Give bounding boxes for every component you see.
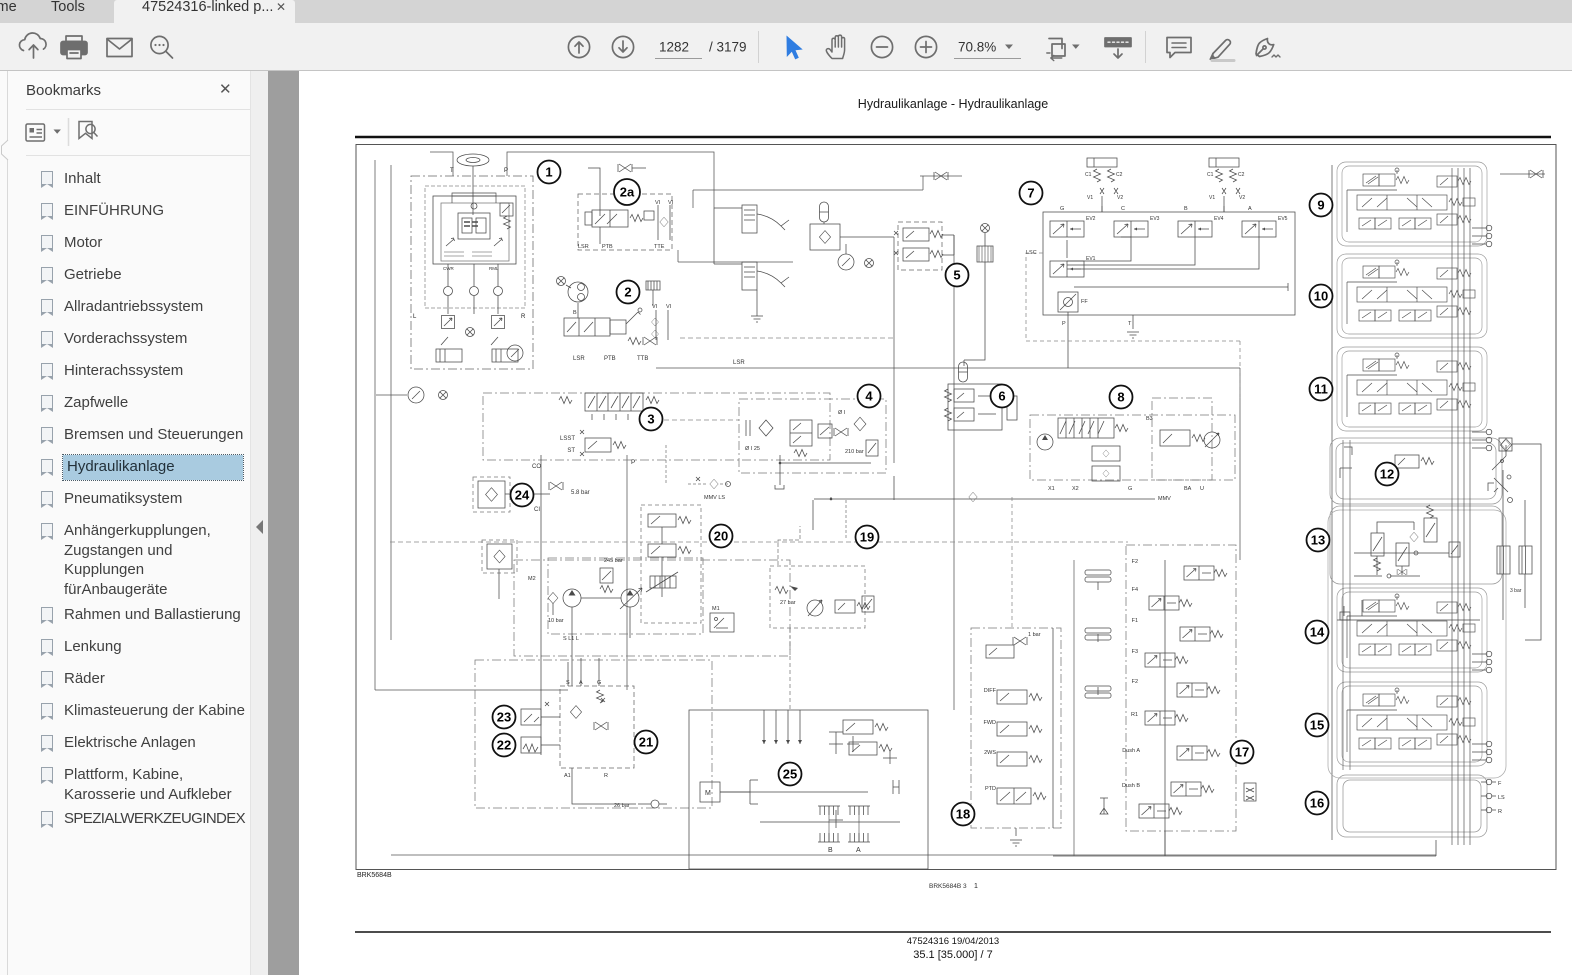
svg-text:C1: C1 bbox=[1085, 172, 1092, 178]
svg-text:P: P bbox=[1062, 321, 1066, 327]
svg-text:A: A bbox=[856, 847, 861, 854]
svg-text:T: T bbox=[450, 168, 454, 174]
svg-text:Dush B: Dush B bbox=[1122, 783, 1140, 789]
svg-text:Ø I 25: Ø I 25 bbox=[745, 446, 760, 452]
svg-text:Dush A: Dush A bbox=[1122, 748, 1140, 754]
svg-text:A: A bbox=[1248, 206, 1252, 212]
svg-text:B: B bbox=[1184, 206, 1188, 212]
svg-text:LS: LS bbox=[1498, 795, 1505, 801]
svg-text:V2: V2 bbox=[1239, 195, 1245, 201]
svg-text:Ø I: Ø I bbox=[838, 410, 846, 416]
svg-text:F: F bbox=[1498, 781, 1502, 787]
svg-text:2a: 2a bbox=[620, 185, 635, 200]
svg-text:5.8 bar: 5.8 bar bbox=[571, 490, 590, 496]
svg-text:F4: F4 bbox=[1132, 587, 1138, 593]
svg-text:CO: CO bbox=[532, 464, 541, 470]
svg-text:14: 14 bbox=[1310, 625, 1325, 640]
svg-text:EV3: EV3 bbox=[1150, 216, 1160, 222]
svg-text:15: 15 bbox=[1310, 718, 1324, 733]
svg-text:BRK5684B: BRK5684B bbox=[357, 872, 392, 879]
svg-text:BRK5684B 3: BRK5684B 3 bbox=[929, 883, 967, 890]
svg-text:PTB: PTB bbox=[604, 356, 616, 362]
svg-text:CI: CI bbox=[534, 507, 540, 513]
svg-text:B: B bbox=[573, 310, 577, 316]
svg-text:DIFF: DIFF bbox=[984, 688, 997, 694]
svg-text:G: G bbox=[1128, 486, 1132, 492]
svg-text:ST: ST bbox=[567, 448, 575, 454]
svg-text:22: 22 bbox=[497, 738, 511, 753]
svg-text:LSR: LSR bbox=[573, 356, 585, 362]
svg-text:1282: 1282 bbox=[659, 40, 689, 55]
svg-text:FWD: FWD bbox=[983, 720, 996, 726]
svg-text:P: P bbox=[504, 168, 508, 174]
svg-text:/ 3179: / 3179 bbox=[709, 40, 747, 55]
svg-text:V2: V2 bbox=[1117, 195, 1123, 201]
svg-text:L: L bbox=[413, 314, 417, 320]
svg-text:3 bar: 3 bar bbox=[1510, 588, 1522, 594]
svg-text:245 bar: 245 bar bbox=[604, 558, 623, 564]
svg-text:1: 1 bbox=[974, 883, 978, 890]
svg-text:23: 23 bbox=[497, 710, 511, 725]
svg-text:1: 1 bbox=[545, 165, 552, 180]
svg-text:V1: V1 bbox=[1209, 195, 1215, 201]
svg-text:F2: F2 bbox=[1132, 559, 1138, 565]
svg-text:C1: C1 bbox=[1207, 172, 1214, 178]
svg-text:210 bar: 210 bar bbox=[845, 449, 864, 455]
svg-text:U: U bbox=[1200, 486, 1204, 492]
svg-text:EV4: EV4 bbox=[1214, 216, 1224, 222]
svg-text:X1: X1 bbox=[1048, 486, 1055, 492]
svg-text:R: R bbox=[604, 773, 608, 779]
svg-text:VI: VI bbox=[655, 200, 661, 206]
svg-text:13: 13 bbox=[1311, 533, 1325, 548]
svg-text:18: 18 bbox=[956, 807, 970, 822]
svg-text:B: B bbox=[828, 847, 833, 854]
svg-text:R1: R1 bbox=[1131, 712, 1138, 718]
svg-text:C: C bbox=[1121, 206, 1125, 212]
svg-text:VI: VI bbox=[652, 304, 658, 310]
svg-text:X2: X2 bbox=[1072, 486, 1079, 492]
svg-text:FF: FF bbox=[1081, 299, 1088, 305]
svg-text:2WS: 2WS bbox=[984, 750, 996, 756]
svg-text:PTB: PTB bbox=[602, 244, 613, 250]
svg-text:17: 17 bbox=[1235, 745, 1249, 760]
svg-text:3: 3 bbox=[647, 412, 654, 427]
svg-text:PTD: PTD bbox=[985, 786, 996, 792]
svg-text:35.1 [35.000] / 7: 35.1 [35.000] / 7 bbox=[913, 949, 993, 961]
svg-text:1 bar: 1 bar bbox=[1028, 632, 1041, 638]
svg-text:10 bar: 10 bar bbox=[548, 618, 564, 624]
svg-text:4: 4 bbox=[865, 389, 873, 404]
svg-text:MMV: MMV bbox=[1158, 496, 1171, 502]
svg-text:12: 12 bbox=[1380, 467, 1394, 482]
svg-text:C2: C2 bbox=[1238, 172, 1245, 178]
svg-text:EV5: EV5 bbox=[1278, 216, 1288, 222]
svg-text:20: 20 bbox=[714, 529, 728, 544]
svg-text:16: 16 bbox=[1310, 796, 1324, 811]
svg-text:M1: M1 bbox=[712, 606, 720, 612]
svg-text:F1: F1 bbox=[1132, 618, 1138, 624]
svg-text:24: 24 bbox=[515, 488, 530, 503]
svg-text:R: R bbox=[1498, 809, 1502, 815]
svg-text:11: 11 bbox=[1314, 382, 1328, 397]
svg-text:21: 21 bbox=[639, 735, 653, 750]
svg-text:9: 9 bbox=[1317, 198, 1324, 213]
svg-text:M: M bbox=[705, 790, 711, 797]
svg-text:Hydraulikanlage - Hydraulikanl: Hydraulikanlage - Hydraulikanlage bbox=[858, 97, 1048, 111]
svg-text:10: 10 bbox=[1314, 289, 1328, 304]
svg-text:LSR: LSR bbox=[578, 244, 589, 250]
svg-text:27 bar: 27 bar bbox=[780, 600, 796, 606]
svg-text:8: 8 bbox=[1117, 390, 1124, 405]
svg-text:LSR: LSR bbox=[733, 360, 745, 366]
svg-text:C2: C2 bbox=[1116, 172, 1123, 178]
svg-text:47524316 19/04/2013: 47524316 19/04/2013 bbox=[907, 936, 999, 947]
svg-text:19: 19 bbox=[860, 530, 874, 545]
svg-text:F3: F3 bbox=[1132, 649, 1138, 655]
svg-text:RML: RML bbox=[489, 266, 499, 271]
svg-text:T: T bbox=[1128, 321, 1132, 327]
svg-text:TTB: TTB bbox=[637, 356, 648, 362]
svg-text:R: R bbox=[521, 314, 526, 320]
svg-text:EV2: EV2 bbox=[1086, 216, 1096, 222]
svg-text:CWR: CWR bbox=[443, 266, 454, 271]
svg-text:5: 5 bbox=[953, 268, 960, 283]
svg-text:6: 6 bbox=[998, 389, 1005, 404]
svg-text:VI: VI bbox=[668, 200, 674, 206]
svg-text:B3: B3 bbox=[1146, 416, 1153, 422]
svg-text:M2: M2 bbox=[528, 576, 536, 582]
svg-text:70.8%: 70.8% bbox=[958, 40, 996, 55]
svg-text:25: 25 bbox=[783, 767, 797, 782]
svg-text:G: G bbox=[1060, 206, 1064, 212]
svg-text:TTE: TTE bbox=[654, 244, 665, 250]
svg-text:7: 7 bbox=[1027, 186, 1034, 201]
svg-text:MMV LS: MMV LS bbox=[704, 495, 725, 501]
svg-text:VI: VI bbox=[666, 304, 672, 310]
svg-text:S L1 L: S L1 L bbox=[563, 636, 579, 642]
svg-text:BA: BA bbox=[1184, 486, 1192, 492]
svg-text:LSST: LSST bbox=[560, 436, 575, 442]
svg-text:2: 2 bbox=[624, 285, 631, 300]
svg-text:P: P bbox=[631, 459, 635, 466]
svg-text:F2: F2 bbox=[1132, 679, 1138, 685]
svg-text:V1: V1 bbox=[1087, 195, 1093, 201]
svg-text:A1: A1 bbox=[564, 773, 571, 779]
